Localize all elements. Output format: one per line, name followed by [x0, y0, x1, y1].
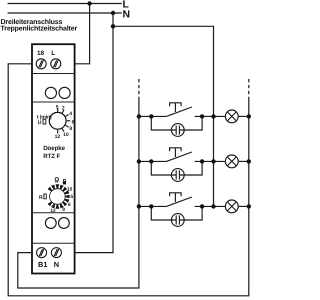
- svg-text:12: 12: [55, 134, 61, 140]
- wire right bus dashed continuation: [248, 79, 250, 99]
- icon lock: [63, 179, 66, 184]
- relay dial knob: [50, 189, 66, 205]
- svg-text:4: 4: [69, 111, 72, 117]
- svg-text:10: 10: [63, 132, 69, 138]
- row 2: wire from button bus to lamp bus: [139, 160, 167, 162]
- wire L drop to L terminal: [61, 4, 90, 64]
- row 1: wire from button bus to lamp bus: [139, 115, 167, 117]
- svg-text:R: R: [39, 195, 43, 201]
- svg-text:B1: B1: [38, 260, 47, 269]
- svg-text:Doepke: Doepke: [43, 145, 65, 152]
- node N bus junction: [111, 11, 115, 15]
- wire N tap to lamp column: [113, 26, 214, 206]
- device outline: [32, 44, 75, 273]
- time dial ticks: [58, 108, 71, 133]
- switch S2 lever: [166, 152, 192, 161]
- wire terminal 18 loop to right bus: [8, 64, 249, 296]
- divider buttons: [32, 101, 75, 103]
- wire left bus dashed continuation: [138, 79, 140, 99]
- row 2 junction dots: [137, 159, 251, 163]
- svg-text:18: 18: [37, 50, 45, 57]
- divider terminals top: [32, 73, 75, 75]
- wire L bus: [8, 3, 122, 5]
- svg-text:5: 5: [56, 104, 59, 110]
- wire N bus: [8, 12, 122, 14]
- row 1 junction dots: [137, 114, 251, 118]
- button window circles bottom: [45, 218, 56, 229]
- svg-text:8: 8: [69, 126, 72, 132]
- switch S3 lever: [166, 197, 192, 206]
- svg-text:6: 6: [72, 119, 75, 125]
- glow lamp E3 branch wires: [151, 206, 176, 220]
- switch S2 push actuator: [170, 148, 182, 152]
- row 3 junction dots: [137, 204, 251, 208]
- svg-text:U: U: [38, 120, 42, 126]
- lamp H3: [225, 200, 238, 213]
- terminal 18 screw: [36, 59, 46, 69]
- LED U indicator: [43, 119, 46, 124]
- relay dial icons and numbers: [50, 187, 73, 214]
- glow lamp E2 branch wires: [151, 161, 176, 175]
- relay dial knob toothed ring: [48, 184, 70, 208]
- switch S1 lever: [166, 107, 192, 116]
- switch S1 push actuator: [170, 103, 182, 107]
- svg-text:Treppenlichtzeitschalter: Treppenlichtzeitschalter: [1, 24, 78, 32]
- node L bus tap: [87, 1, 91, 5]
- svg-text:9: 9: [62, 207, 65, 213]
- node N tap junction: [111, 24, 115, 28]
- svg-text:N: N: [123, 9, 131, 20]
- LED R indicator: [44, 194, 46, 199]
- lamp H2: [225, 155, 238, 168]
- divider above bottom buttons: [32, 212, 75, 214]
- svg-text:12: 12: [50, 208, 56, 214]
- lamp H1: [225, 110, 238, 123]
- terminal N screw: [51, 248, 61, 258]
- button window circles top: [45, 87, 56, 98]
- icon permanent light: [55, 178, 58, 183]
- glow lamp E2: [171, 169, 184, 182]
- switch S3 push actuator: [170, 193, 182, 197]
- svg-text:5: 5: [70, 194, 73, 200]
- time dial knob: [49, 112, 66, 129]
- svg-text:L: L: [51, 50, 55, 57]
- row 3: wire from button bus to lamp bus: [139, 205, 167, 207]
- divider terminals bottom: [32, 242, 75, 244]
- wire N drop to N terminal: [61, 13, 113, 253]
- wire terminal B1 loop to button bus: [18, 99, 139, 288]
- svg-text:N: N: [54, 260, 59, 269]
- glow lamp E1: [171, 124, 184, 137]
- terminal B1 screw: [37, 248, 47, 258]
- svg-text:RTZ F: RTZ F: [43, 153, 60, 160]
- svg-text:10: 10: [67, 187, 73, 193]
- time dial numbers: [55, 104, 75, 140]
- svg-text:2: 2: [62, 105, 65, 111]
- svg-text:6: 6: [68, 202, 71, 208]
- terminal L screw: [51, 59, 61, 69]
- glow lamp E3: [171, 214, 184, 227]
- glow lamp E1 branch wires: [151, 116, 176, 130]
